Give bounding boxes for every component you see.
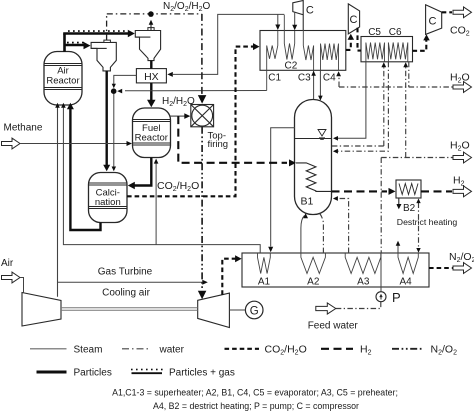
svg-text:Cooling air: Cooling air: [102, 287, 150, 298]
svg-text:Feed water: Feed water: [308, 321, 359, 332]
coil C5: [366, 43, 385, 62]
coil A3: [345, 253, 381, 274]
label A1: [258, 276, 271, 287]
wire: B1 downcomer to A2: [320, 214, 324, 254]
svg-text:C: C: [350, 14, 358, 26]
label H2 right: [453, 175, 465, 188]
wire: branch to cyclone 1 (particles+gas): [65, 42, 91, 50]
label C1: [268, 73, 281, 84]
label C4: [323, 73, 336, 84]
coil C4: [321, 44, 339, 71]
wire: water header y157.5 to H2O out: [381, 152, 471, 163]
wire: top-firing exhaust to gas turbine: [198, 127, 207, 299]
svg-text:G: G: [250, 305, 259, 317]
fuel reactor vessel: [133, 108, 171, 158]
cyclone 1: [91, 40, 116, 71]
svg-text:C: C: [429, 15, 437, 27]
wire: methane feed: [2, 122, 133, 149]
wire: calcination CO2/H2O to C-box: [127, 43, 260, 196]
label A2: [307, 276, 320, 287]
svg-text:Gas Turbine: Gas Turbine: [98, 266, 153, 277]
svg-text:C2: C2: [285, 61, 298, 72]
wire: A2 riser into B1: [301, 213, 308, 253]
compressor C top-middle: [293, 1, 314, 17]
svg-text:A1,C1-3 = superheater; A2, B1,: A1,C1-3 = superheater; A2, B1, C4, C5 = …: [112, 387, 398, 397]
node: junction dot N2/O2/H2O: [148, 11, 154, 17]
label H2O right 2: [450, 140, 470, 153]
coil C3: [303, 15, 313, 73]
svg-text:C5: C5: [368, 27, 381, 38]
wire: turbine shaft / cooling air duct: [61, 308, 198, 311]
svg-text:N2​/O2​: N2​/O2​: [449, 251, 474, 264]
label A4: [399, 276, 412, 287]
wire: feed water inlet arrow: [316, 303, 336, 314]
wire: steam to HX (from C2): [167, 14, 284, 77]
wire: cyclone 2 vent: [149, 20, 154, 30]
legend water: [122, 344, 185, 355]
wire: water header y87 to H2O out: [339, 82, 472, 93]
label C2: [285, 61, 298, 72]
svg-text:Particles + gas: Particles + gas: [169, 367, 235, 378]
wire: N2/O2/H2O down to top-firing: [198, 14, 207, 104]
wire: fuel reactor to calcination (particles): [128, 158, 152, 190]
legend H2: [321, 344, 372, 357]
label N2/O2/H2O top: [163, 1, 211, 13]
wire: compressed air to air reactor: [55, 103, 60, 297]
wire: C6 condensate down: [408, 62, 410, 87]
wire: compressor to C5/C6 box: [358, 28, 362, 51]
coil C2: [284, 15, 294, 60]
svg-text:A3: A3: [357, 276, 370, 287]
label A3: [357, 276, 370, 287]
svg-text:C4: C4: [323, 73, 336, 84]
legend line 1: [112, 387, 398, 397]
svg-text:C3: C3: [298, 73, 311, 84]
wire: C5 return to B1: [333, 62, 389, 154]
legend N2/O2: [392, 344, 457, 357]
wire: water header to C4: [336, 71, 341, 87]
svg-text:CO2​/H2​O: CO2​/H2​O: [265, 344, 307, 357]
label N2/O2 right: [449, 251, 474, 264]
wire: feed water suction line: [336, 302, 381, 309]
wire: compressor mid-C to C-box: [292, 12, 303, 31]
svg-text:C6: C6: [389, 27, 402, 38]
coil A4: [398, 253, 418, 274]
svg-text:B1: B1: [301, 196, 314, 208]
svg-text:firing: firing: [208, 139, 229, 150]
label H2/H2O: [162, 96, 195, 108]
label H2O right 1: [450, 72, 470, 85]
wire: cyclone 2 dipleg through HX to fuel reactor (particles): [147, 61, 156, 108]
svg-text:Methane: Methane: [4, 122, 43, 133]
label C3: [298, 73, 311, 84]
svg-text:B2: B2: [403, 203, 416, 214]
svg-text:A1: A1: [258, 276, 271, 287]
coil C6: [388, 43, 407, 62]
wire: B1 steam risers to C-box: [311, 70, 322, 100]
wire: C5/C6 box to CO2 compressor 2: [413, 34, 430, 50]
wire: cyclone 1 dipleg to calcination (particles): [103, 71, 110, 171]
wire: B2 water leg to A-box: [416, 199, 420, 253]
svg-text:H2​/H2​O: H2​/H2​O: [162, 96, 195, 108]
wire: air reactor riser to cyclones (particles+gas): [63, 30, 135, 52]
compressor C right (CO2 stage 2): [426, 5, 442, 35]
label CO2: [450, 25, 470, 38]
svg-text:A4, B2 = destrict heating; P =: A4, B2 = destrict heating; P = pump; C =…: [153, 401, 359, 411]
node: junction dot at HX: [111, 88, 117, 94]
legend CO2/H2O: [225, 344, 307, 357]
heat exchanger HX: [136, 69, 166, 83]
air compressor: [22, 293, 61, 327]
label CO2/H2O middle: [157, 180, 199, 193]
svg-text:HX: HX: [144, 71, 159, 83]
calcination vessel: [89, 173, 128, 223]
svg-text:A2: A2: [307, 276, 320, 287]
wire: pump discharge through A-box: [380, 253, 382, 292]
label Air: [1, 258, 14, 269]
wire: A-box flue gas out N2/O2: [429, 263, 472, 274]
wire: turbine exhaust to A-box: [222, 255, 241, 295]
wire: C1 outlet to junction dot: [117, 89, 267, 94]
svg-text:nation: nation: [95, 197, 121, 208]
wire: gas turbine air line: [58, 280, 208, 285]
svg-text:Steam: Steam: [74, 344, 103, 355]
wire: feed water to B1 drum: [333, 196, 349, 253]
label B2: [397, 203, 416, 214]
wire: HX outlet to junction dot: [112, 75, 137, 88]
wire: branch arrow into C-box (C1 leg): [275, 14, 280, 30]
legend particles+gas: [131, 367, 235, 378]
svg-text:water: water: [159, 344, 185, 355]
wire: generator shaft: [229, 309, 245, 311]
svg-text:Particles: Particles: [74, 367, 112, 378]
wire: B1 steam to A1 superheater: [268, 128, 295, 252]
pump P: [376, 290, 401, 305]
legend line 2: [153, 401, 359, 411]
heat exchanger box C5-C6: [361, 37, 413, 62]
svg-text:Reactor: Reactor: [135, 133, 168, 144]
top-firing burner: [191, 105, 214, 127]
district heater B2: [396, 180, 421, 198]
wire: junction to calcination: [112, 94, 117, 171]
wire: calcination return to air reactor (particles): [67, 103, 101, 230]
wire: H2 from B1 to B2: [332, 188, 396, 195]
svg-text:P: P: [392, 290, 401, 305]
wire: C6 feed riser: [403, 62, 408, 157]
legend steam: [30, 344, 102, 355]
wire: C5 feed riser: [381, 62, 386, 146]
label C5: [368, 27, 381, 38]
wire: C5/C6 condensate to B1: [333, 62, 366, 141]
wire: cyclone 1 vent: [106, 14, 108, 40]
boiler drum B1: [295, 100, 332, 215]
generator G: [245, 301, 263, 319]
svg-text:Air: Air: [1, 258, 14, 269]
heat exchanger box A1-A4: [242, 253, 429, 287]
coil A2: [301, 253, 326, 274]
compressor C mid (CO2 stage 1): [348, 4, 359, 34]
svg-text:Reactor: Reactor: [46, 76, 79, 87]
wire: steam header from A1 to reactors: [61, 103, 260, 253]
wire: A4 district heating stub: [396, 241, 401, 253]
wire: C-box to CO2 compressor: [346, 34, 354, 50]
label Cooling air: [102, 287, 150, 298]
heat exchanger box C1-C4: [260, 31, 346, 71]
svg-text:A4: A4: [399, 276, 412, 287]
svg-text:C1: C1: [268, 73, 281, 84]
coil A1: [258, 253, 271, 274]
svg-text:CO2​/H2​O: CO2​/H2​O: [157, 180, 199, 193]
wire: B2 outlet stub: [397, 198, 401, 209]
label Gas Turbine: [98, 266, 153, 277]
label Feed water: [308, 321, 359, 332]
wire: CO2 product line: [442, 7, 472, 18]
wire: H2 product line: [421, 186, 472, 197]
wire: B1 to C5 feed: [332, 145, 384, 147]
wire: fuel reactor H2/H2O outlet: [170, 113, 190, 119]
svg-text:Destrict heating: Destrict heating: [397, 217, 458, 227]
label Destrict heating: [397, 217, 458, 227]
wire: A3 outlet riser above A-box: [380, 158, 382, 254]
svg-text:C: C: [306, 5, 314, 17]
wire: H2/H2O to B1 condenser: [178, 116, 296, 166]
label C6: [389, 27, 402, 38]
gas turbine: [198, 293, 230, 327]
wire: air intake: [2, 272, 24, 293]
legend particles: [37, 367, 112, 378]
wire: N2/O2/H2O header: [107, 13, 202, 15]
label Top-firing: [208, 130, 229, 150]
coil C1: [267, 31, 278, 91]
air reactor vessel: [44, 52, 82, 106]
coil in B1 (H2 cooling): [296, 163, 332, 192]
cyclone 2: [135, 28, 160, 61]
